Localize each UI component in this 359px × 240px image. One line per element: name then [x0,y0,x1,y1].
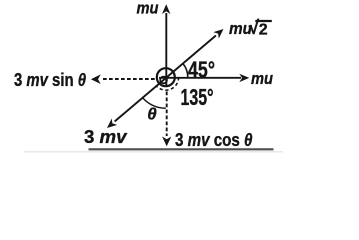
node: mu right arrowhead [239,74,249,82]
node: 3 mv arrowhead [107,119,117,129]
svg-text:θ: θ [147,104,157,123]
wire: dashed shaft left (3 mv sin θ component) [103,78,157,80]
node: mu√2 arrowhead [213,29,223,39]
arc: 45 degrees [183,63,188,77]
baseline: faint left segment [24,151,283,153]
svg-text:mu: mu [251,69,274,88]
svg-text:3 mv: 3 mv [84,127,128,147]
node: down arrowhead [162,137,171,147]
arc: 135 degrees dashed [156,77,179,90]
svg-text:45°: 45° [188,57,215,83]
arc: theta [142,97,166,108]
wire: diagonal shaft (mu√2 / 3 mv line) [115,36,216,122]
svg-text:135°: 135° [181,84,214,110]
svg-text:3 mv sin θ: 3 mv sin θ [14,70,86,90]
wire: vertical mu shaft [165,13,167,85]
svg-text:3 mv cos θ: 3 mv cos θ [175,130,253,150]
baseline: ground line [89,148,274,150]
svg-text:mu: mu [137,0,160,18]
node: mu up arrowhead [162,4,170,14]
wire: dashed vertical down (3 mv cos θ component) [166,92,168,137]
wire: horizontal mu shaft right [159,77,241,79]
node: origin outer circle [157,68,175,86]
node: origin inner circle [160,77,167,84]
node: left arrowhead [91,74,101,84]
svg-text:2: 2 [259,22,268,39]
